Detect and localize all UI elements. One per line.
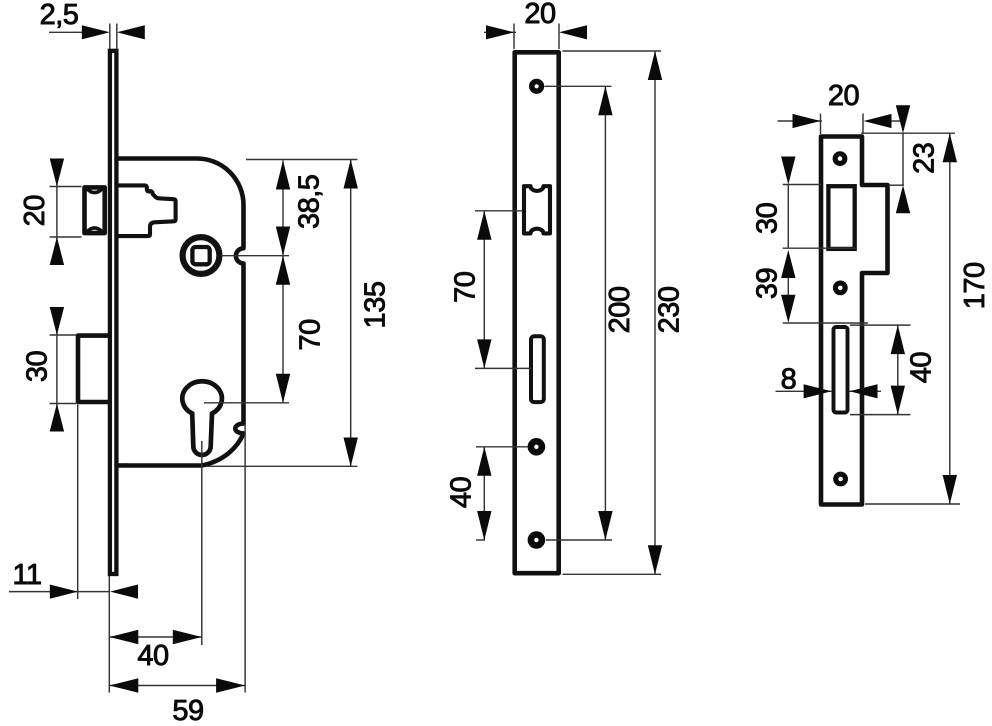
svg-text:30: 30 [22,351,54,382]
faceplate front outline [515,52,559,573]
svg-text:38,5: 38,5 [294,175,326,229]
svg-text:39: 39 [752,268,784,299]
extension bolt slot top left [783,322,868,324]
strike latch opening [828,186,854,249]
latch bolt profile inside case [116,185,175,236]
extension line case top [246,159,358,161]
svg-text:20: 20 [19,195,51,226]
lock case body outline [116,159,243,466]
dimension 40 (slot length) [891,325,938,415]
bottom screw hole [528,531,546,549]
dimension 200 (screw centres) [598,86,636,540]
svg-text:135: 135 [360,282,392,329]
extension strike top [861,132,955,134]
strike plate outline [821,137,888,505]
extension latch cutout axis [475,210,523,212]
dimension 135 (case height) [344,160,392,467]
extension strike bottom [865,503,960,505]
extension bolt cutout axis [475,367,532,369]
svg-text:230: 230 [654,286,686,333]
dimension 23 (lip offset) [896,105,941,213]
dimension 170 (strike length) [943,133,991,504]
svg-text:20: 20 [524,0,555,30]
svg-text:30: 30 [752,203,784,234]
dimension 40 (screw spacing) [446,447,492,540]
extension plate bottom [563,573,662,575]
extension strike step [889,184,905,186]
svg-text:20: 20 [828,80,859,112]
svg-text:40: 40 [906,352,938,383]
deadbolt head [78,336,111,402]
latch bolt head [85,187,105,233]
dimension 230 (faceplate length) [648,51,686,574]
extension screw2 axis [476,446,528,448]
extension plate top [563,50,662,52]
dimension 38,5 [276,161,326,256]
dimension 20 (strike width) [778,80,904,134]
dimension 30 (latch opening) [752,157,796,249]
strike top screw [833,151,848,166]
dimension 39 (opening to slot) [752,250,796,323]
extension line case right [244,424,246,693]
dimension 40 (backset) [109,630,202,672]
extension line faceplate left [108,576,110,693]
extension line spindle axis [221,255,289,257]
extension screw3 axis [476,539,485,541]
middle screw hole [528,438,546,456]
spindle follower (square hub) [183,237,220,274]
dimension 20 (faceplate width) [484,0,587,49]
dimension 59 (case depth) [109,678,245,726]
dimension 20 (latch height) [19,159,82,266]
svg-text:11: 11 [12,559,41,591]
deadbolt cutout [531,336,544,402]
latch cutout [524,186,550,233]
svg-text:70: 70 [450,272,482,303]
dimension 70 (spindle to cylinder) [276,256,327,403]
dimension 70 (latch to bolt) [450,211,492,369]
svg-text:23: 23 [909,143,941,174]
svg-text:170: 170 [959,262,991,309]
extension line keyhole axis [204,402,289,404]
svg-text:40: 40 [137,640,168,672]
extension latch opening top [783,184,821,186]
extension slot top right [850,324,911,326]
extension slot bottom right [850,414,911,416]
extension top screw axis [545,85,612,87]
extension line keyhole centre vertical [201,441,203,645]
strike deadbolt slot [834,327,848,413]
svg-text:200: 200 [604,286,636,333]
svg-text:70: 70 [295,319,327,350]
faceplate (side, 2.5 thick) [110,51,117,574]
euro cylinder keyhole [182,381,222,455]
extension line case bottom [207,465,358,467]
dimension 30 (deadbolt height) [22,307,77,432]
svg-text:59: 59 [172,695,203,726]
svg-text:40: 40 [446,477,478,508]
top screw hole [529,79,544,94]
svg-text:2,5: 2,5 [40,0,79,31]
strike middle screw [833,281,848,296]
extension latch opening bottom [783,247,856,249]
dimension 11 (bolt throw) [9,405,138,600]
strike bottom screw [833,472,848,487]
dimension 8 (slot width) [776,363,882,398]
dimension 2,5 [40,0,145,49]
